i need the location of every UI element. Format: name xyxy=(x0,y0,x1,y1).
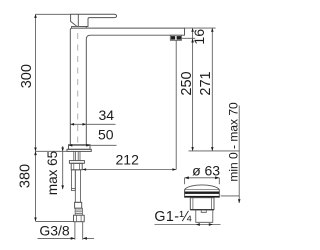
node arrows 300/380 xyxy=(34,14,37,221)
node surface extension right xyxy=(189,150,240,152)
svg-text:300: 300 xyxy=(19,64,35,88)
svg-text:G1-¼: G1-¼ xyxy=(154,209,192,225)
svg-text:min 0 - max 70: min 0 - max 70 xyxy=(227,102,241,182)
fixing stud below nut xyxy=(72,170,76,191)
svg-text:max 65: max 65 xyxy=(45,151,60,195)
node aerator xyxy=(170,35,181,40)
wire extension hex bottom xyxy=(36,220,74,222)
wire extension spout top right xyxy=(185,27,216,29)
mounting nut body xyxy=(71,163,82,170)
svg-text:212: 212 xyxy=(116,152,140,168)
faucet base block xyxy=(69,145,91,150)
svg-text:16: 16 xyxy=(192,29,208,45)
svg-text:250: 250 xyxy=(179,71,195,95)
svg-text:34: 34 xyxy=(99,107,115,123)
node max65 dimension line xyxy=(62,146,64,189)
node surface extension left xyxy=(36,150,68,152)
drain cap cylinder xyxy=(185,190,220,198)
node min0max70 dimension line xyxy=(238,106,240,204)
node 50 dimension xyxy=(69,127,117,147)
fitting thread xyxy=(75,208,82,215)
node 16/250 dimension line xyxy=(192,28,194,151)
node 34 dimension xyxy=(70,107,115,126)
node handle joint line xyxy=(77,14,79,26)
node cartridge collar xyxy=(72,26,87,28)
mounting nut flange xyxy=(69,161,84,164)
svg-text:G3/8: G3/8 xyxy=(39,223,70,239)
node diameter 63 dimension xyxy=(185,162,221,184)
faucet body and spout outline xyxy=(70,28,184,145)
lever handle xyxy=(71,14,117,26)
hose connector xyxy=(75,202,82,208)
node G3/8 dimension xyxy=(38,222,95,240)
wire extension aerator to 212 xyxy=(175,41,177,170)
wire extension aerator bottom xyxy=(182,37,196,39)
svg-text:ø 63: ø 63 xyxy=(192,162,220,178)
wire extension cap bottom xyxy=(221,195,240,197)
node G1-1/4 dimension xyxy=(154,209,220,226)
node 300/380 dimension line xyxy=(35,14,37,221)
node 212 dimension xyxy=(82,152,176,171)
supply hose xyxy=(75,170,80,203)
drain body xyxy=(190,198,214,211)
drain cap dome xyxy=(185,185,220,190)
svg-text:271: 271 xyxy=(198,71,214,95)
wire extension line top at lever top xyxy=(36,13,71,15)
svg-text:50: 50 xyxy=(98,127,114,143)
node 271 dimension line xyxy=(211,28,213,151)
faucet escutcheon xyxy=(67,149,91,151)
shank studs xyxy=(74,151,80,160)
svg-text:380: 380 xyxy=(18,164,34,188)
node centerline dashed xyxy=(77,33,79,144)
drain tail thread xyxy=(196,210,213,222)
fitting hex nut xyxy=(74,215,85,222)
